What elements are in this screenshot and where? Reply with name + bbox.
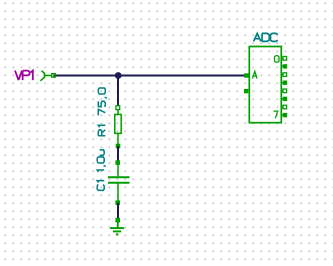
C1 pin 2 stub — [117, 184, 119, 203]
ground bar 1 — [110, 227, 124, 229]
value label C1 1,0u — [97, 150, 105, 191]
pin 7 label — [274, 111, 278, 118]
C1 pin 1 stub — [117, 163, 119, 177]
pin A label — [253, 71, 258, 78]
label VP1 — [15, 71, 33, 81]
R1 pin 1 (hollow square) — [116, 106, 120, 110]
right pin 4 — [281, 89, 286, 93]
right pin 0 — [281, 57, 286, 61]
value label R1 75,0 — [98, 88, 106, 136]
ADC body — [249, 47, 281, 123]
ADC title — [254, 33, 278, 41]
junction node — [115, 72, 122, 79]
R1 pin 2 stub — [117, 133, 119, 146]
right pin 6 — [281, 105, 286, 109]
wire R1 to C1 — [117, 146, 119, 163]
wire VP1 to junction — [54, 75, 119, 77]
C1 pin 1 (filled square) — [115, 160, 120, 165]
left pin 2 (filled square, unconnected) — [244, 89, 248, 93]
pin of VP1 terminal — [52, 74, 56, 78]
C1 top plate — [108, 176, 130, 178]
R1 pin 1 stub — [117, 108, 119, 115]
wire junction to ADC pin A — [118, 75, 246, 77]
IC U1 ADC — [244, 33, 287, 122]
wire junction to R1 — [117, 76, 119, 108]
R1 pin 2 (filled square) — [116, 144, 121, 149]
right pin 1 — [281, 64, 287, 68]
ground bar 3 — [116, 233, 118, 235]
resistor R1 — [98, 88, 121, 148]
C1 bottom plate — [108, 182, 130, 184]
right pin 5 — [281, 97, 287, 101]
ground — [110, 218, 124, 235]
right pin 3 — [281, 81, 287, 85]
R1 body — [115, 114, 121, 133]
ground bar 2 — [113, 230, 121, 232]
wire C1 to ground — [117, 203, 119, 220]
capacitor C1 — [97, 150, 129, 205]
C1 pin 2 (filled square) — [115, 200, 120, 205]
pin 0 label — [275, 56, 280, 62]
right pin 2 — [281, 73, 286, 77]
pin A (filled square) — [244, 73, 248, 77]
ground stub — [117, 220, 119, 228]
ground pin (filled square) — [115, 218, 120, 223]
right pin 7 — [281, 113, 287, 117]
terminal VP1 — [40, 71, 52, 81]
